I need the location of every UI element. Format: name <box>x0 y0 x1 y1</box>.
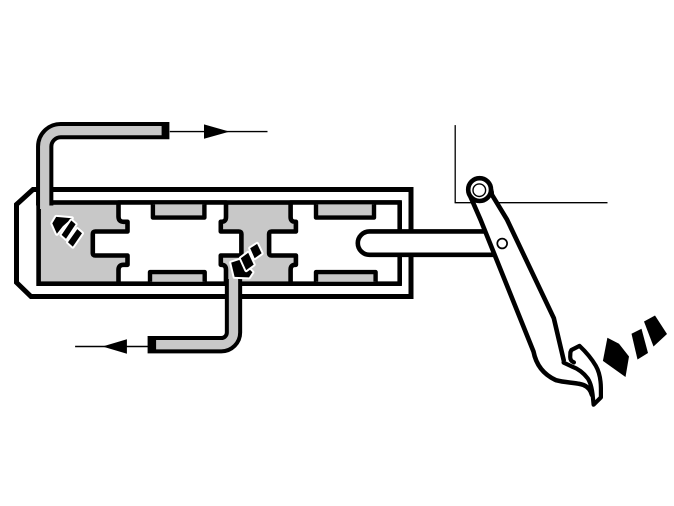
port tab bottom of chamber A <box>150 272 205 282</box>
outlet pipe bottom-middle (bore) <box>156 277 233 345</box>
pedal lever arm (visible outline) <box>469 183 592 395</box>
outlet pipe bottom-middle (outline) <box>148 279 234 345</box>
bracket wall lines (thin corner) <box>454 125 456 203</box>
pedal foot pad (fill) <box>566 346 601 405</box>
pushrod from spool to pedal <box>358 231 500 254</box>
striped motion arrow at left chamber (up-left) <box>52 217 82 247</box>
striped motion arrow at pedal (pressing left) <box>603 316 667 378</box>
pivot pin hole <box>473 184 486 197</box>
inlet pipe top-left (bore) <box>45 131 162 209</box>
flow arrow line top (pointing right) <box>170 131 268 133</box>
chamber A (left white chamber with spool tongues) <box>93 203 242 284</box>
flow arrow line bottom (pointing left) <box>75 346 148 348</box>
pushrod pin hole <box>497 239 507 249</box>
port tab top of chamber B <box>316 204 374 217</box>
pedal pivot boss <box>468 178 491 201</box>
pedal lever arm (fill silhouette) <box>469 183 592 398</box>
inlet pipe top-left (outline) <box>45 131 170 206</box>
striped motion arrow at middle land (down-left) <box>231 244 261 278</box>
port tab bottom of chamber B <box>316 272 376 282</box>
port tab top of chamber A <box>153 204 205 217</box>
chamber B (right white chamber) <box>269 203 400 284</box>
valve bore inner lining (fluid chamber) <box>39 203 400 284</box>
valve body outer housing <box>17 190 412 297</box>
pedal foot pad (outline) <box>564 346 601 405</box>
